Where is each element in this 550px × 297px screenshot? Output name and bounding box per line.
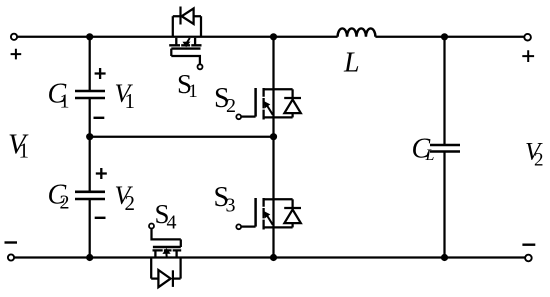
S3 diode cathode bar <box>284 207 301 209</box>
svg-text:L: L <box>343 48 360 79</box>
S1 body arrow <box>186 38 189 43</box>
S3 source branch <box>264 226 293 228</box>
junction dot bottom C column <box>86 254 93 261</box>
polarity + of C2 <box>96 168 107 179</box>
polarity - of output terminal <box>522 243 535 245</box>
S2 drain contact <box>264 88 274 90</box>
capacitor C1 plates <box>75 91 105 98</box>
S3 gate lead <box>241 225 256 227</box>
svg-text:2: 2 <box>226 95 236 117</box>
polarity + of output terminal <box>522 50 534 62</box>
S3 drain contact <box>264 198 274 200</box>
S2 diode triangle <box>284 100 300 114</box>
output terminal - (bottom right) <box>525 255 532 262</box>
S4 source contact <box>175 251 177 257</box>
transistor S2 MOSFET (vertical) <box>236 88 301 120</box>
S1 channel <box>169 44 201 46</box>
svg-text:2: 2 <box>60 192 70 214</box>
S3 diode loop vertical top <box>291 199 293 207</box>
junction dot bottom CL column <box>441 254 448 261</box>
svg-text:2: 2 <box>534 150 544 171</box>
junction dot bottom S column <box>270 254 277 261</box>
wire left capacitor column <box>89 37 91 258</box>
svg-text:1: 1 <box>60 91 70 113</box>
S4 diode loop left vertical <box>150 258 152 279</box>
S4 diode cathode bar <box>172 270 174 287</box>
S1 drain contact <box>175 38 177 45</box>
S2 diode loop vertical bottom <box>291 113 293 117</box>
S2 diode cathode bar <box>284 97 301 99</box>
svg-text:1: 1 <box>125 89 136 113</box>
S3 channel <box>262 198 264 230</box>
S3 body arrow <box>267 215 273 225</box>
S3 gate bar <box>254 198 257 227</box>
junction dot top C column <box>86 33 93 40</box>
junction dot top CL column <box>441 33 448 40</box>
wire bottom rail <box>14 256 525 258</box>
S2 gate terminal circle <box>236 114 241 119</box>
input terminal - (bottom left) <box>8 254 14 260</box>
polarity + of input terminal <box>11 49 22 60</box>
polarity + of C1 <box>95 68 106 79</box>
S3 gate terminal circle <box>236 224 241 229</box>
polarity - of C1 <box>94 117 105 119</box>
S1 source contact <box>194 38 196 45</box>
wire middle node A: C1-C2 midpoint to S2-S3 midpoint <box>90 136 274 138</box>
junction dot top S column <box>270 33 277 40</box>
inductor L coil <box>338 28 376 36</box>
S4 body arrow <box>165 253 167 257</box>
S1 diode loop left vertical <box>172 16 174 37</box>
polarity - of C2 <box>95 217 106 219</box>
wire top rail left of inductor <box>17 36 337 38</box>
svg-text:3: 3 <box>226 195 236 217</box>
transistor S4 MOSFET (bottom, horizontal) <box>149 224 181 288</box>
S4 diode loop right vertical <box>179 258 181 279</box>
S4 diode anode lead <box>151 277 158 279</box>
S1 gate lead <box>171 56 200 64</box>
S1 gate terminal circle <box>198 64 203 69</box>
output terminal + (top right) <box>524 34 531 41</box>
junction dot node A right <box>270 133 277 140</box>
S1 diode triangle <box>182 8 194 24</box>
transistor S1 MOSFET (top, horizontal) <box>169 7 202 70</box>
S2 gate lead <box>241 115 256 117</box>
S2 source branch <box>264 116 293 118</box>
S4 drain contact <box>154 251 156 257</box>
capacitor CL plates <box>430 145 460 152</box>
S2 channel <box>262 88 264 120</box>
S3 diode loop vertical bottom <box>291 223 293 227</box>
svg-text:1: 1 <box>188 81 198 102</box>
svg-text:1: 1 <box>19 139 30 163</box>
S4 gate link <box>180 239 182 247</box>
S4 gate terminal circle <box>149 224 154 229</box>
wire switch column S2/S3 <box>272 37 274 258</box>
S4 channel <box>153 249 182 251</box>
S3 drain branch <box>274 198 293 200</box>
S4 gate bar <box>153 246 181 248</box>
capacitor C2 plates <box>75 192 105 199</box>
svg-text:4: 4 <box>167 211 177 233</box>
svg-text:2: 2 <box>125 191 136 215</box>
S2 gate bar <box>254 88 257 117</box>
svg-text:L: L <box>425 147 435 164</box>
input terminal + (top left) <box>11 34 17 40</box>
junction dot node A left <box>86 133 93 140</box>
S4 diode cathode lead <box>173 277 181 279</box>
S1 diode cathode bar <box>179 7 181 25</box>
wire output capacitor column <box>443 37 445 258</box>
S1 gate link <box>170 49 172 56</box>
S4 diode triangle <box>158 270 170 287</box>
polarity - of input terminal <box>5 241 18 243</box>
transistor S3 MOSFET (vertical) <box>236 198 301 230</box>
S1 diode anode/cathode horizontal leads <box>173 15 201 17</box>
S2 diode loop vertical top <box>291 89 293 97</box>
S2 drain branch <box>274 88 293 90</box>
S3 diode triangle <box>284 210 300 224</box>
S1 gate bar <box>171 47 200 49</box>
S2 body arrow <box>267 105 273 115</box>
S4 gate lead <box>152 229 181 240</box>
S1 diode loop right vertical <box>200 16 202 37</box>
wire top rail right of inductor <box>375 36 524 38</box>
